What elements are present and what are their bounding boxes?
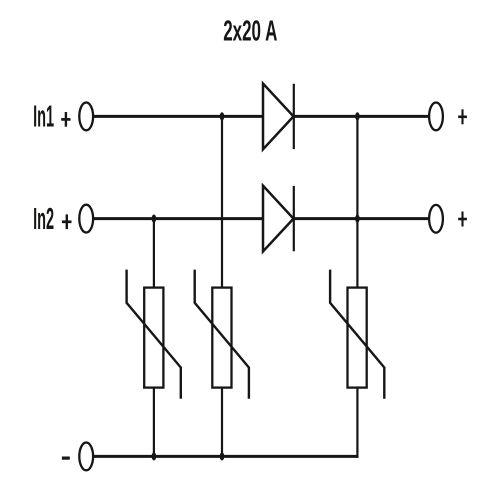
terminal In2 bbox=[79, 205, 93, 233]
wire vertical from varistor RU2 to minus rail bbox=[221, 388, 223, 457]
varistor RU2 bbox=[195, 270, 249, 399]
wire vertical from varistor RU1 to minus rail bbox=[153, 388, 155, 457]
plus sign at Out2 bbox=[458, 212, 467, 227]
minus sign at rail bbox=[62, 457, 70, 460]
terminal In1 bbox=[79, 103, 93, 131]
terminal Out2 bbox=[429, 205, 443, 233]
wire vertical from In1 to In2 junction toward varistor RU3 bbox=[356, 116, 358, 288]
plus sign at Out1 bbox=[458, 109, 467, 124]
wire minus rail horizontal bbox=[94, 455, 359, 458]
diode D2 bbox=[263, 186, 294, 252]
svg-text:In1: In1 bbox=[33, 100, 54, 134]
junction node In1/RU3 branch bbox=[355, 112, 360, 120]
wire In2 left segment bbox=[94, 217, 264, 220]
junction node rail/RU1 bbox=[152, 452, 157, 460]
varistor RU3 bbox=[330, 270, 384, 399]
plus sign at In2 bbox=[62, 214, 72, 229]
junction node In1/RU2 bbox=[220, 112, 225, 120]
wire vertical from In2 to varistor RU1 bbox=[153, 219, 155, 289]
junction node In2/RU1 bbox=[152, 215, 157, 223]
svg-text:2x20 A: 2x20 A bbox=[223, 15, 277, 47]
wire In1 right segment bbox=[294, 115, 429, 118]
junction node rail/RU2 bbox=[220, 452, 225, 460]
junction node In2/RU3 bbox=[355, 215, 360, 223]
wire vertical from In1 to varistor RU2 bbox=[221, 116, 223, 288]
svg-text:In2: In2 bbox=[33, 202, 54, 236]
terminal Out1 bbox=[429, 103, 443, 131]
wire vertical from varistor RU3 to minus rail corner bbox=[356, 388, 358, 458]
wire In2 right segment bbox=[294, 217, 429, 220]
diode D1 bbox=[263, 84, 294, 150]
plus sign at In1 bbox=[61, 112, 70, 127]
wire In1 left segment bbox=[94, 115, 264, 118]
varistor RU1 bbox=[127, 270, 181, 399]
terminal minus bbox=[79, 443, 93, 471]
